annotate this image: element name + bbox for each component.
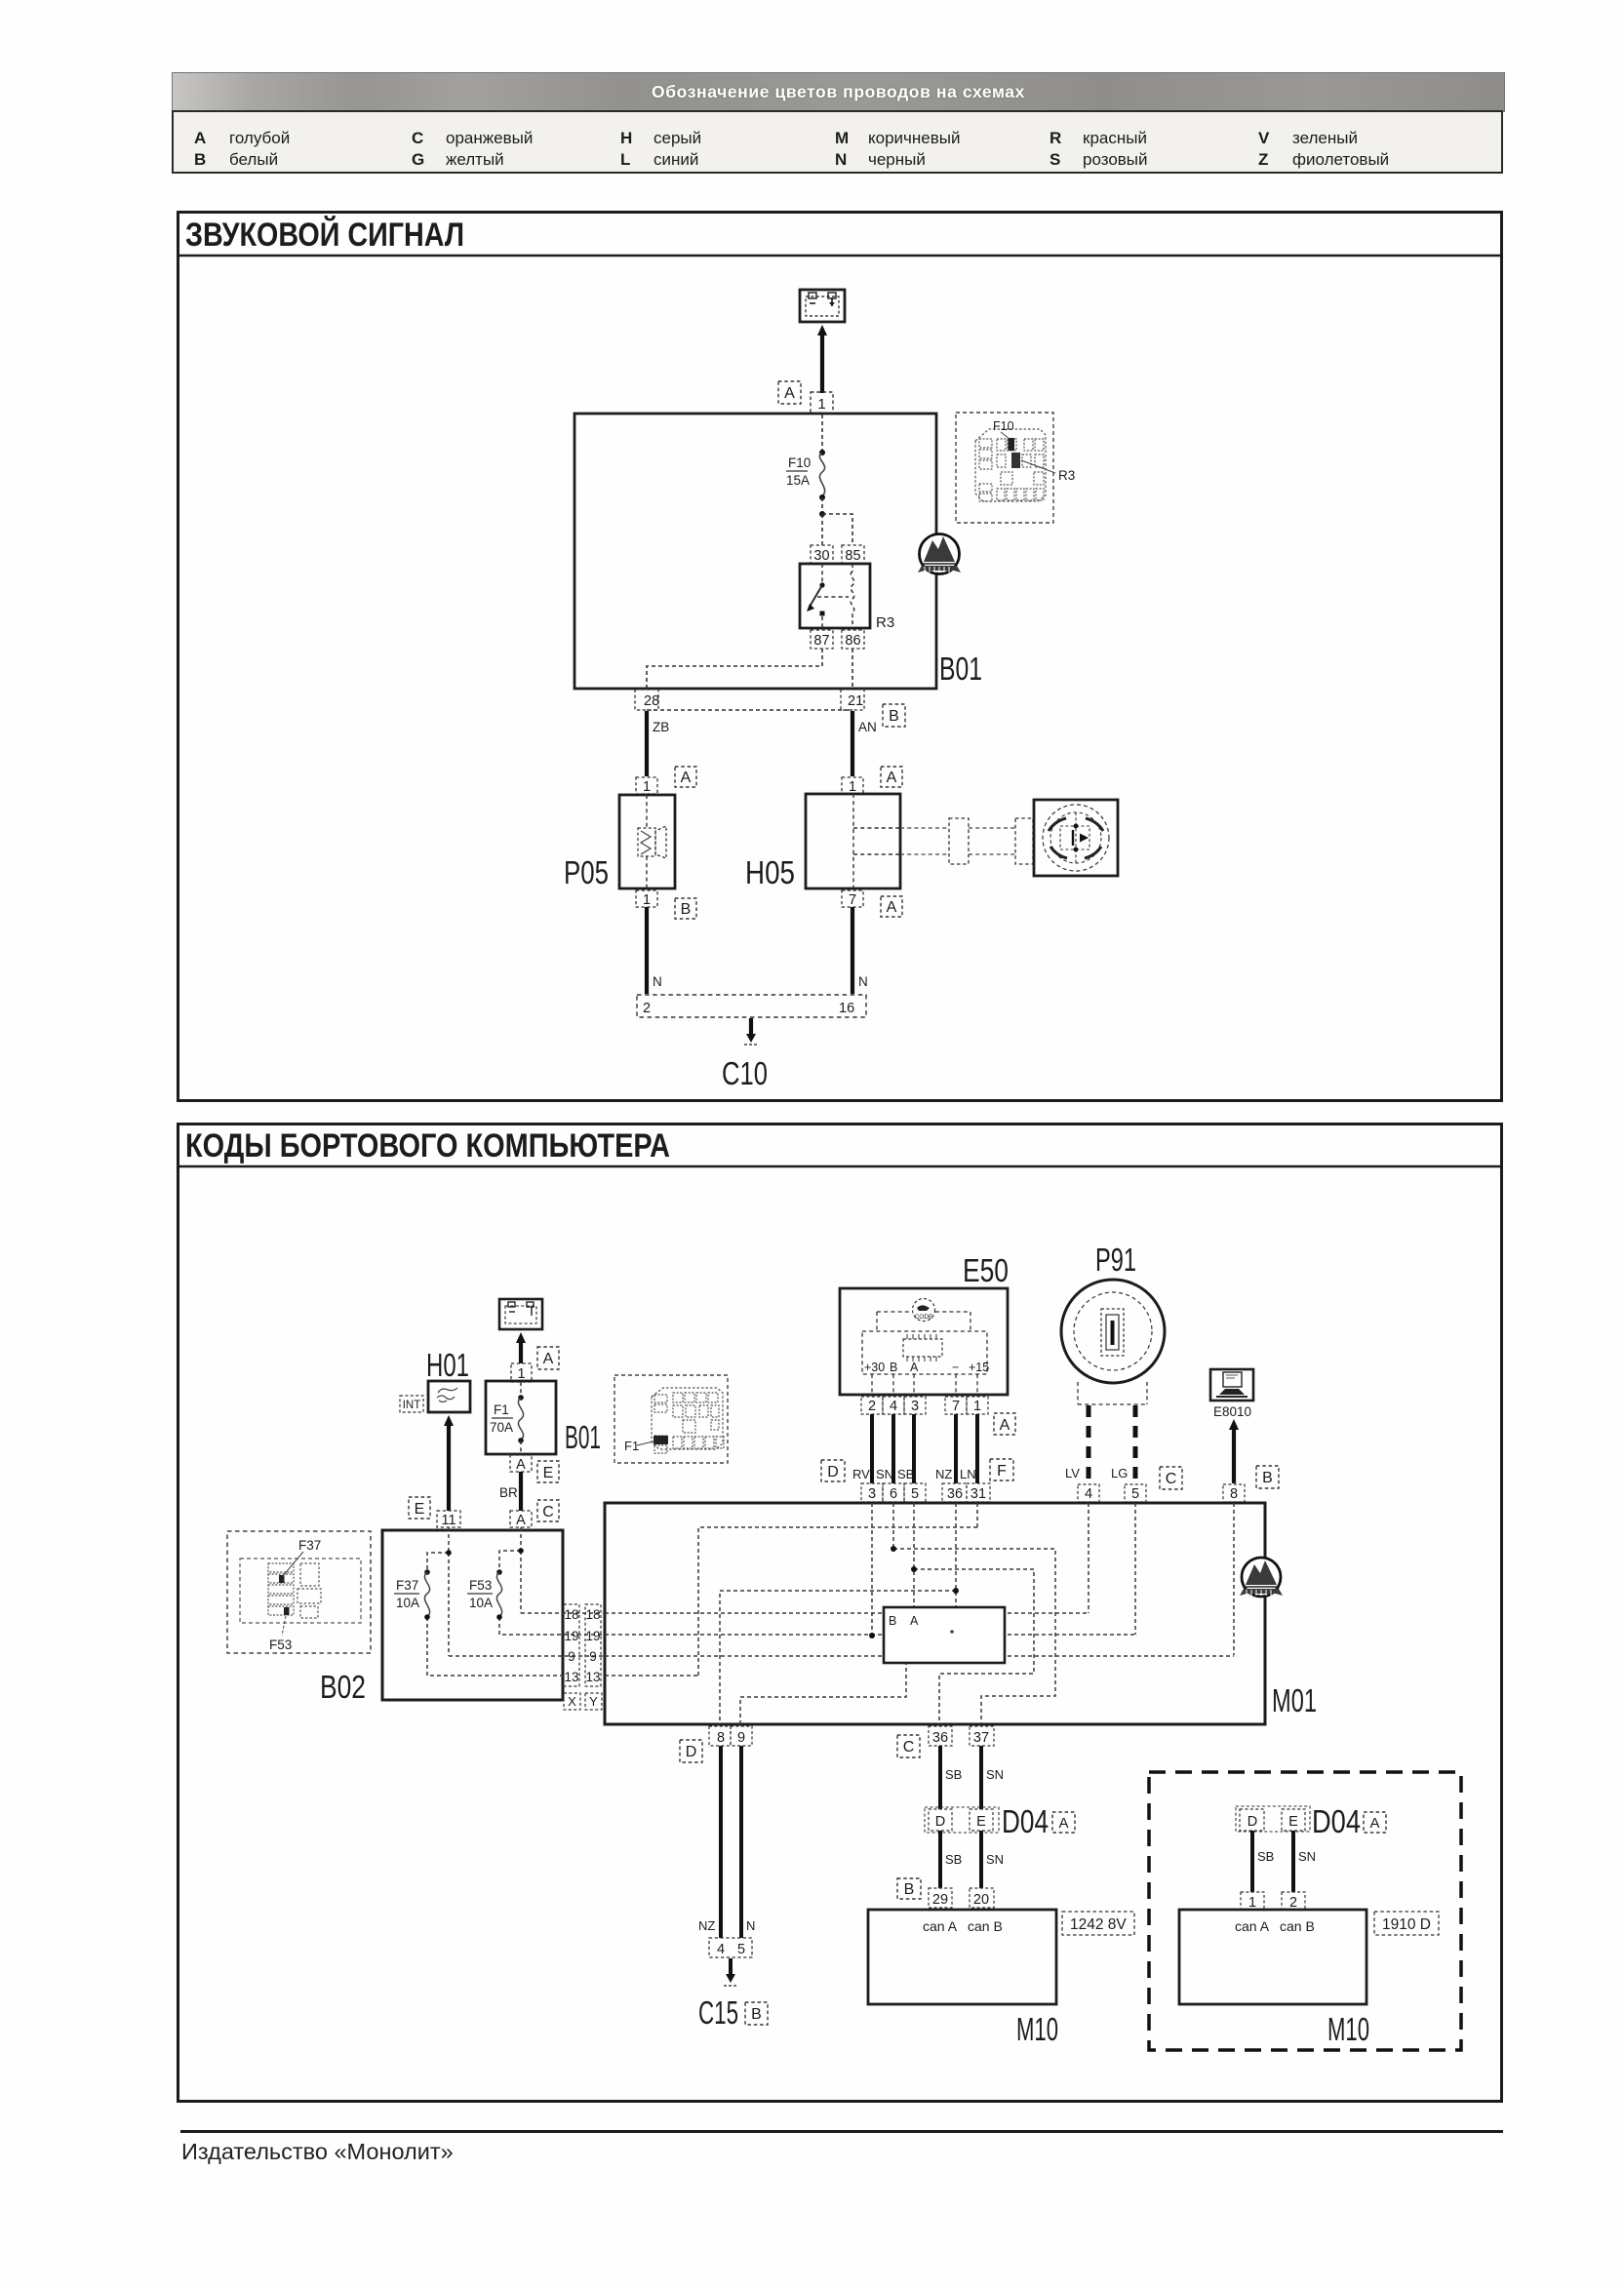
letter code C	[537, 1500, 559, 1521]
fuse F53 10A	[496, 1569, 502, 1575]
net NZ horizontal	[720, 1591, 956, 1724]
letter code D	[821, 1460, 845, 1481]
battery icon	[499, 1299, 542, 1329]
fusebox inset of B01	[614, 1375, 728, 1463]
pin 11 of B02	[437, 1511, 460, 1527]
wire pin8 down	[1233, 1503, 1235, 1655]
connector columns X Y	[564, 1604, 579, 1686]
svg-text:B01: B01	[565, 1419, 601, 1455]
svg-text:1: 1	[973, 1399, 981, 1414]
M01 top pins 3 6 5 36 31	[861, 1483, 883, 1502]
thick wires E50 to M01	[872, 1414, 977, 1483]
title underline	[178, 255, 1502, 257]
steering wheel horn pad	[1034, 800, 1118, 876]
svg-text:X: X	[568, 1694, 576, 1709]
svg-text:can A: can A	[923, 1918, 958, 1934]
pin 30	[811, 545, 833, 564]
svg-text:can B: can B	[1280, 1918, 1315, 1934]
pin 21	[841, 690, 864, 710]
svg-text:B: B	[681, 901, 692, 918]
svg-text:A: A	[543, 1351, 554, 1367]
svg-text:RV: RV	[852, 1467, 870, 1481]
dashed link 28-21	[647, 709, 852, 711]
svg-text:2: 2	[868, 1399, 876, 1414]
svg-text:INT: INT	[403, 1400, 421, 1411]
svg-text:R3: R3	[876, 614, 894, 631]
wires SB SN to M10	[938, 1831, 942, 1888]
pin 85	[842, 545, 864, 564]
svg-text:19: 19	[564, 1629, 578, 1643]
svg-text:1: 1	[517, 1366, 525, 1382]
svg-text:N: N	[653, 974, 662, 989]
svg-text:7: 7	[952, 1399, 960, 1414]
svg-text:+30: +30	[864, 1361, 885, 1374]
horn P05	[619, 795, 675, 888]
row 19	[605, 1634, 1135, 1636]
frame box 2	[178, 1125, 1502, 2102]
wire pin31 LN down	[976, 1503, 978, 1527]
svg-text:4: 4	[717, 1942, 725, 1957]
wire N from P05	[645, 907, 649, 994]
svg-text:SB: SB	[945, 1852, 962, 1867]
title underline	[178, 1165, 1502, 1168]
wires to steering wheel horn button	[900, 827, 949, 829]
svg-text:F37: F37	[396, 1578, 418, 1593]
svg-text:LV: LV	[1065, 1466, 1080, 1480]
wire pin3 RV down	[871, 1503, 873, 1636]
svg-text:2: 2	[1289, 1895, 1297, 1911]
svg-text:A: A	[910, 1614, 919, 1628]
wire pin6 SN down	[892, 1503, 894, 1549]
wire pin36 NZ down	[955, 1503, 957, 1607]
svg-text:1: 1	[643, 779, 651, 795]
letter code C	[897, 1735, 920, 1757]
C15 pins 4 5	[709, 1938, 752, 1957]
M10 pins 1 2	[1241, 1892, 1264, 1910]
letter code A	[537, 1347, 559, 1369]
svg-text:19: 19	[585, 1629, 600, 1643]
svg-text:A: A	[681, 770, 692, 786]
Monolit logo on B01 edge	[918, 534, 961, 574]
svg-text:A: A	[1058, 1815, 1068, 1832]
svg-text:ZB: ZB	[653, 720, 669, 734]
svg-text:F53: F53	[469, 1578, 492, 1593]
net N bottom pin 9	[740, 1663, 906, 1724]
svg-text:C15: C15	[698, 1994, 738, 2031]
svg-text:28: 28	[644, 693, 659, 709]
svg-text:SN: SN	[1298, 1849, 1316, 1864]
svg-text:A: A	[1000, 1417, 1010, 1434]
svg-text:70A: 70A	[490, 1420, 513, 1435]
svg-text:B: B	[889, 708, 899, 725]
svg-text:37: 37	[973, 1730, 989, 1746]
svg-text:E8010: E8010	[1213, 1404, 1251, 1419]
svg-text:P91: P91	[1095, 1242, 1136, 1278]
svg-text:1242 8V: 1242 8V	[1070, 1916, 1127, 1933]
svg-text:18: 18	[585, 1607, 600, 1622]
svg-text:NZ: NZ	[698, 1918, 715, 1933]
svg-text:can A: can A	[1235, 1918, 1270, 1934]
connector D04 left	[925, 1807, 999, 1833]
svg-text:SN: SN	[876, 1467, 893, 1481]
pin 28	[635, 690, 658, 710]
letter code A at P05	[675, 767, 696, 787]
svg-text:BR: BR	[499, 1485, 518, 1500]
svg-text:F1: F1	[494, 1402, 509, 1417]
svg-text:3: 3	[868, 1486, 876, 1502]
letter code E left	[409, 1497, 430, 1519]
pin 87	[811, 630, 833, 649]
svg-text:5: 5	[911, 1486, 919, 1502]
svg-text:D04: D04	[1002, 1803, 1049, 1839]
svg-text:9: 9	[589, 1649, 597, 1664]
letter code F	[990, 1459, 1013, 1480]
svg-text:B01: B01	[939, 651, 982, 687]
box B01 (fuse/relay unit)	[574, 414, 936, 689]
M01 bottom pins 36 37	[929, 1726, 952, 1746]
svg-text:N: N	[858, 974, 868, 989]
svg-text:13: 13	[585, 1670, 600, 1684]
letter code C	[1160, 1467, 1182, 1489]
svg-text:NZ: NZ	[935, 1467, 952, 1481]
svg-text:B: B	[890, 1361, 897, 1374]
header gray banner	[172, 72, 1505, 112]
variant dashed box (1910 D engine)	[1149, 1772, 1461, 2050]
svg-text:9: 9	[737, 1730, 745, 1746]
svg-text:A: A	[516, 1457, 526, 1473]
svg-text:Y: Y	[589, 1694, 598, 1709]
svg-text:−: −	[952, 1361, 959, 1374]
svg-text:C: C	[542, 1504, 554, 1520]
X Y letter boxes	[564, 1693, 580, 1710]
svg-text:36: 36	[932, 1730, 948, 1746]
M01 body computer box	[605, 1503, 1265, 1724]
pin A of B02	[510, 1511, 532, 1527]
ground stub C15	[729, 1958, 733, 1976]
E50 code control unit	[840, 1288, 1008, 1395]
svg-text:CODE: CODE	[915, 1314, 933, 1321]
svg-text:E50: E50	[963, 1252, 1009, 1288]
row 13	[605, 1675, 698, 1677]
svg-text:20: 20	[973, 1892, 989, 1908]
svg-text:86: 86	[845, 633, 860, 649]
svg-text:21: 21	[848, 693, 863, 709]
svg-text:LN: LN	[960, 1467, 976, 1481]
arrow wire to battery	[519, 1340, 523, 1363]
letter code A at H05	[881, 767, 902, 787]
wire pin5 LG down	[1134, 1503, 1136, 1635]
svg-text:D: D	[1248, 1814, 1257, 1830]
M01 pin 8	[1223, 1484, 1245, 1502]
svg-text:F1: F1	[624, 1439, 639, 1453]
svg-text:A: A	[887, 899, 897, 916]
svg-text:M01: M01	[1272, 1682, 1317, 1718]
svg-text:1: 1	[817, 396, 825, 413]
svg-text:H05: H05	[745, 854, 795, 890]
frame box 1	[178, 213, 1502, 1101]
svg-text:D: D	[686, 1744, 697, 1760]
letter code B	[1256, 1466, 1279, 1488]
svg-text:5: 5	[1131, 1486, 1139, 1502]
B02 fusebox inset	[227, 1531, 371, 1653]
ground stub	[749, 1018, 753, 1036]
svg-text:9: 9	[568, 1649, 575, 1664]
svg-text:M10: M10	[1327, 2011, 1369, 2047]
svg-text:B: B	[751, 2006, 762, 2023]
arrow wire pin 11 to H01	[447, 1423, 451, 1511]
wires SB SN to D04	[938, 1746, 942, 1809]
svg-text:R3: R3	[1058, 468, 1075, 483]
wire ZB	[645, 711, 649, 776]
B02 internal wiring	[427, 1527, 605, 1676]
E50 pin row 2 4 3 7 1	[861, 1397, 883, 1414]
svg-text:10A: 10A	[396, 1596, 419, 1610]
fuse F37 10A	[424, 1569, 430, 1575]
svg-text:F53: F53	[269, 1638, 292, 1652]
pin 7 of H05	[842, 890, 863, 907]
svg-text:F10: F10	[788, 455, 811, 470]
svg-text:30: 30	[813, 548, 829, 564]
svg-text:A: A	[887, 770, 897, 786]
connector C10	[637, 995, 866, 1017]
junction dots	[891, 1546, 896, 1552]
svg-text:7: 7	[849, 892, 856, 908]
pin 1 of P05	[636, 777, 657, 794]
svg-text:SB: SB	[1257, 1849, 1274, 1864]
pin 1 of B01	[511, 1363, 532, 1382]
net SB path	[914, 1569, 1034, 1724]
svg-text:29: 29	[932, 1892, 948, 1908]
svg-text:E: E	[976, 1814, 986, 1830]
inner control block of M01	[884, 1607, 1005, 1663]
svg-text:1910 D: 1910 D	[1382, 1916, 1431, 1933]
M01 pins 4 5	[1078, 1484, 1099, 1502]
horn switch H05	[806, 794, 900, 888]
svg-text:15A: 15A	[786, 473, 810, 488]
P91 connector shroud	[1078, 1382, 1147, 1404]
svg-text:4: 4	[890, 1399, 897, 1414]
svg-text:SN: SN	[986, 1767, 1004, 1782]
svg-text:C: C	[903, 1739, 915, 1756]
svg-text:18: 18	[564, 1607, 578, 1622]
svg-text:31: 31	[970, 1486, 986, 1502]
wire 87 to pin 28	[647, 649, 822, 689]
svg-text:1: 1	[849, 779, 856, 795]
B01 fuse unit	[486, 1381, 556, 1454]
svg-text:B: B	[904, 1881, 915, 1898]
svg-text:16: 16	[839, 1001, 854, 1016]
svg-text:11: 11	[441, 1513, 456, 1528]
junction dots at B02 top	[446, 1550, 452, 1556]
pin 1 of H05	[842, 777, 863, 794]
M01 bottom pins 8 9	[709, 1726, 731, 1746]
E8010 diagnostic tester	[1210, 1369, 1253, 1401]
svg-text:E: E	[415, 1501, 425, 1518]
wire BR	[519, 1472, 523, 1511]
wire branch to relay coil 85	[822, 514, 852, 545]
H01 instrument module	[428, 1381, 470, 1412]
pin 86	[842, 630, 864, 649]
connector D04 right	[1236, 1806, 1310, 1832]
letter code B	[745, 2002, 768, 2025]
svg-text:SB: SB	[897, 1467, 914, 1481]
1242 8V tag	[1062, 1912, 1134, 1935]
arrow wire to E8010	[1232, 1427, 1236, 1483]
P91 ignition switch	[1061, 1280, 1165, 1383]
svg-text:ЗВУКОВОЙ СИГНАЛ: ЗВУКОВОЙ СИГНАЛ	[185, 216, 464, 254]
svg-text:M10: M10	[1016, 2011, 1058, 2047]
svg-text:КОДЫ БОРТОВОГО КОМПЬЮТЕРА: КОДЫ БОРТОВОГО КОМПЬЮТЕРА	[185, 1127, 670, 1164]
svg-text:4: 4	[1085, 1486, 1092, 1502]
bold dashed wires LV LG	[1087, 1405, 1091, 1483]
svg-text:87: 87	[813, 633, 829, 649]
wires NZ N to C15	[719, 1746, 723, 1938]
svg-text:SN: SN	[986, 1852, 1004, 1867]
svg-text:F10: F10	[993, 419, 1014, 433]
svg-text:B02: B02	[320, 1669, 366, 1705]
svg-text:85: 85	[845, 548, 860, 564]
wire pin4 LV down	[1088, 1503, 1089, 1613]
wire pin1 down to fuse	[821, 414, 823, 452]
svg-text:6: 6	[890, 1486, 897, 1502]
wire battery to pin 1	[820, 333, 824, 393]
M10 engine ECU right	[1179, 1910, 1367, 2004]
row 9	[605, 1655, 1234, 1657]
fuse F1 70A	[518, 1398, 523, 1440]
M10 engine ECU	[868, 1910, 1056, 2004]
wire N from H05	[851, 907, 854, 994]
fuse F10 15A	[819, 453, 824, 496]
svg-text:5: 5	[737, 1942, 745, 1957]
wire pin5 SB down	[913, 1503, 915, 1607]
M10 pins 29 20	[929, 1888, 952, 1908]
svg-text:can B: can B	[968, 1918, 1003, 1934]
battery G01	[800, 290, 845, 322]
svg-text:E: E	[1288, 1814, 1298, 1830]
letter code A	[994, 1413, 1015, 1435]
svg-text:C10: C10	[722, 1055, 768, 1091]
svg-text:P05: P05	[564, 854, 609, 890]
letter code B	[883, 704, 905, 727]
svg-text:A: A	[1369, 1815, 1379, 1832]
svg-text:10A: 10A	[469, 1596, 493, 1610]
M01 internal dashed wiring	[605, 1503, 1234, 1724]
svg-text:SB: SB	[945, 1767, 962, 1782]
svg-text:36: 36	[947, 1486, 963, 1502]
row 18	[605, 1612, 1089, 1614]
legend strip	[172, 110, 1503, 174]
B02 fuse box unit	[382, 1530, 563, 1700]
svg-text:F: F	[997, 1463, 1007, 1480]
letter code E	[537, 1461, 559, 1482]
wire 86 to pin 21	[852, 649, 853, 689]
pin A below B01	[510, 1455, 532, 1472]
svg-text:D: D	[935, 1814, 945, 1830]
wires SB SN right variant	[1250, 1831, 1254, 1892]
pin 1 of B01	[811, 392, 833, 414]
footer line and imprint	[180, 2130, 1503, 2133]
svg-text:8: 8	[717, 1730, 725, 1746]
net LN horizontal	[698, 1527, 977, 1676]
svg-text:A: A	[910, 1361, 919, 1374]
letter code B	[897, 1878, 921, 1899]
letter code A	[778, 381, 801, 404]
svg-text:H01: H01	[426, 1347, 469, 1383]
svg-text:E: E	[543, 1465, 554, 1481]
svg-text:+15: +15	[969, 1361, 989, 1374]
svg-text:C: C	[1166, 1471, 1177, 1487]
svg-text:A: A	[784, 385, 795, 402]
wire AN	[851, 711, 854, 776]
pin 1 bottom of P05	[636, 890, 657, 907]
INT code box	[400, 1396, 423, 1412]
relay R3	[800, 564, 870, 628]
svg-text:A: A	[516, 1513, 526, 1528]
svg-text:B: B	[889, 1614, 896, 1628]
1910 D tag	[1374, 1912, 1439, 1935]
svg-text:13: 13	[564, 1670, 578, 1684]
letter code B below P05	[675, 898, 696, 919]
svg-text:B: B	[1262, 1470, 1273, 1486]
letter code A below H05	[881, 896, 902, 917]
svg-text:8: 8	[1230, 1486, 1238, 1502]
net SN path	[893, 1549, 1055, 1724]
svg-text:D04: D04	[1312, 1803, 1361, 1839]
svg-text:2: 2	[643, 1001, 651, 1016]
svg-text:F37: F37	[298, 1538, 321, 1553]
svg-text:AN: AN	[858, 720, 877, 734]
svg-text:N: N	[746, 1918, 755, 1933]
fusebox inset with F10/R3	[956, 413, 1053, 523]
letter code D	[680, 1740, 702, 1762]
svg-text:D: D	[827, 1464, 839, 1480]
Monolit logo on M01 edge	[1240, 1558, 1283, 1597]
svg-text:3: 3	[911, 1399, 919, 1414]
svg-text:LG: LG	[1111, 1466, 1128, 1480]
svg-text:1: 1	[643, 892, 651, 908]
wire to relay 30	[821, 514, 823, 545]
svg-text:1: 1	[1248, 1895, 1256, 1911]
